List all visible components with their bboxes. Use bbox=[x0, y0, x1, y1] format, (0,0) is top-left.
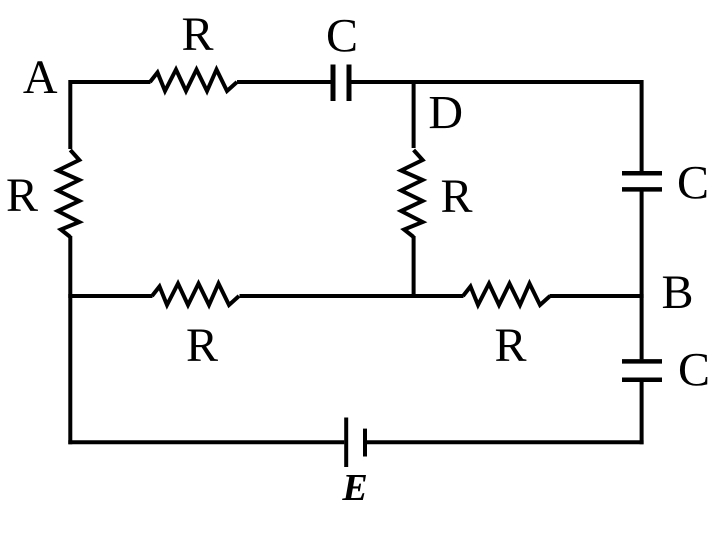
wire: middle wire left segment bbox=[68, 294, 152, 298]
resistor R4 (middle wire left) bbox=[152, 284, 239, 306]
svg-text:A: A bbox=[23, 51, 58, 104]
svg-text:C: C bbox=[677, 157, 709, 210]
battery E (bottom wire): long plate bbox=[344, 418, 348, 468]
wire: middle wire center segment bbox=[240, 294, 464, 298]
resistor R5 (middle wire right) bbox=[463, 284, 550, 306]
wire: bottom wire left segment (to battery) bbox=[68, 440, 344, 444]
capacitor C1 (top wire, vertical plates) bbox=[333, 65, 349, 102]
svg-text:R: R bbox=[440, 170, 472, 223]
wire: top middle segment (resistor R1 to capacitor C1) bbox=[237, 80, 331, 84]
wire: left rail lower (resistor R2 to bottom-left corner) bbox=[68, 236, 72, 444]
svg-text:R: R bbox=[494, 319, 526, 372]
capacitor C2 (right rail upper, horizontal plates) bbox=[622, 173, 662, 189]
wire: node D stub (top wire down to resistor R3) bbox=[412, 80, 416, 148]
battery E: short plate bbox=[363, 429, 367, 457]
wire: middle wire right segment to node B bbox=[550, 294, 644, 298]
resistor R3 (D branch) bbox=[401, 150, 423, 237]
wire: right rail lower (capacitor C3 to bottom-right corner) bbox=[640, 382, 644, 445]
svg-text:D: D bbox=[428, 86, 463, 139]
svg-text:C: C bbox=[326, 10, 358, 63]
wire: node A corner (left rail top + top-left segment) bbox=[70, 82, 150, 149]
wire: bottom wire right segment (battery to bottom-right corner) bbox=[367, 440, 644, 444]
resistor R2 (left rail) bbox=[58, 150, 80, 237]
resistor R1 (top wire) bbox=[150, 70, 237, 92]
wire: D branch lower (resistor R3 to middle wire junction) bbox=[412, 236, 416, 298]
svg-text:R: R bbox=[186, 319, 218, 372]
svg-text:C: C bbox=[678, 344, 710, 397]
svg-text:B: B bbox=[661, 266, 693, 319]
wire: right rail middle (capacitor C2 to capacitor C3) bbox=[640, 191, 644, 359]
svg-text:R: R bbox=[181, 8, 213, 61]
wire: top right segment + right rail upper bbox=[349, 82, 642, 171]
svg-text:E: E bbox=[341, 467, 367, 509]
svg-text:R: R bbox=[6, 169, 38, 222]
capacitor C3 (right rail lower, horizontal plates) bbox=[622, 361, 662, 379]
